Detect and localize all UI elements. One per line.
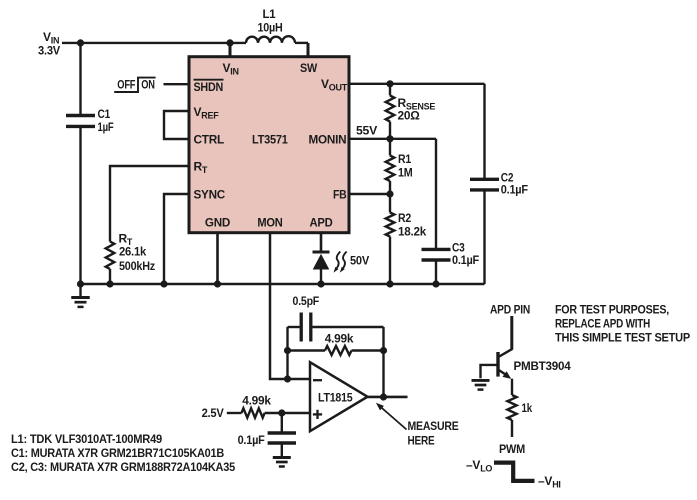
capacitor C1: [66, 107, 114, 134]
note parts list: [11, 432, 236, 474]
wire VOUT: [350, 83, 485, 85]
svg-text:2.5V: 2.5V: [202, 406, 224, 420]
pin label APD: [309, 216, 333, 230]
svg-text:R1: R1: [398, 152, 412, 166]
svg-text:26.1k: 26.1k: [119, 245, 147, 259]
wire C1 branch upper: [79, 43, 81, 116]
wire C1 branch lower: [79, 126, 81, 284]
resistor RSENSE: [386, 84, 436, 123]
junction rail-C3: [432, 280, 439, 287]
svg-text:–VHI: –VHI: [538, 474, 561, 490]
svg-text:50V: 50V: [350, 254, 369, 268]
svg-text:C1: C1: [98, 107, 111, 121]
wire base: [481, 365, 499, 378]
ground symbol main: [71, 284, 90, 307]
svg-text:R2: R2: [398, 211, 412, 225]
pin label SHDN: [194, 80, 224, 94]
junction fb-res-right: [380, 347, 387, 354]
pin label VIN: [223, 61, 239, 77]
label PWM: [499, 442, 525, 456]
annotation test note: [555, 303, 690, 345]
svg-text:0.1µF: 0.1µF: [238, 433, 265, 447]
junction rail-GND: [214, 280, 221, 287]
junction plus-cap: [278, 409, 285, 416]
net label VIN 3.3V: [38, 30, 60, 58]
svg-text:GND: GND: [205, 216, 231, 230]
svg-text:18.2k: 18.2k: [398, 224, 427, 238]
wire emitter: [511, 420, 513, 437]
wire VIN pin stub: [229, 43, 232, 57]
junction VIN-pin: [226, 39, 233, 46]
svg-text:0.1µF: 0.1µF: [501, 183, 528, 197]
wire VIN rail: [62, 42, 246, 44]
IC name LT3571: [252, 133, 288, 147]
svg-text:LT1815: LT1815: [318, 391, 353, 405]
label 50V: [350, 254, 369, 268]
diode APD: [313, 252, 330, 284]
wire FB: [350, 181, 390, 213]
junction rail-APD: [317, 280, 324, 287]
svg-text:10µH: 10µH: [258, 21, 283, 35]
label 55V: [356, 124, 377, 138]
op-amp U2 LT1815: [310, 362, 368, 431]
svg-text:MONIN: MONIN: [309, 133, 347, 147]
wire output: [368, 396, 408, 399]
svg-text:PMBT3904: PMBT3904: [514, 359, 572, 373]
junction rail-RT: [106, 280, 113, 287]
junction inv-node: [284, 375, 291, 382]
photodiode arrows: [334, 252, 347, 273]
wire RT pin: [110, 166, 189, 242]
pin label FB: [333, 188, 347, 202]
svg-text:CTRL: CTRL: [194, 133, 225, 147]
wire SW pin stub: [307, 43, 310, 57]
wire VREF-CTRL loop: [164, 111, 189, 139]
junction rail-C1: [77, 280, 84, 287]
resistor 4.99k feedback: [288, 332, 384, 356]
svg-text:0.1µF: 0.1µF: [452, 253, 479, 267]
svg-text:4.99k: 4.99k: [242, 394, 271, 408]
annotation MEASURE HERE: [376, 403, 459, 448]
resistor R1: [386, 139, 413, 181]
svg-text:APD PIN: APD PIN: [490, 303, 530, 317]
svg-text:SHDN: SHDN: [194, 80, 224, 94]
wire plus input left: [227, 412, 242, 414]
svg-text:SW: SW: [300, 61, 318, 75]
wire C2 branch: [483, 84, 485, 284]
svg-text:FB: FB: [333, 188, 347, 202]
pin label MONIN: [309, 133, 347, 147]
capacitor 0.1uF bypass: [238, 413, 296, 447]
svg-text:L1: TDK VLF3010AT-100MR49: L1: TDK VLF3010AT-100MR49: [11, 432, 163, 446]
pin label CTRL: [194, 133, 225, 147]
svg-text:C2, C3: MURATA X7R GRM188R72A1: C2, C3: MURATA X7R GRM188R72A104KA35: [11, 460, 236, 474]
svg-text:500kHz: 500kHz: [119, 259, 155, 273]
svg-text:0.5pF: 0.5pF: [293, 294, 320, 308]
ground symbol opamp: [273, 443, 291, 467]
junction rail-R2: [386, 280, 393, 287]
svg-text:–VLO: –VLO: [466, 458, 492, 474]
junction MONIN: [386, 135, 393, 142]
svg-text:1M: 1M: [398, 166, 413, 180]
pin label GND: [205, 216, 231, 230]
wire C3 branch: [435, 139, 437, 250]
wire SYNC: [164, 194, 189, 284]
capacitor C3: [422, 241, 480, 267]
wire inv feedback vertical: [286, 327, 288, 379]
svg-text:HERE: HERE: [408, 434, 435, 448]
wire SHDN: [164, 83, 190, 85]
wire output feedback vertical: [382, 327, 384, 397]
wire MONIN: [350, 138, 436, 140]
junction FB: [386, 190, 393, 197]
ground rail: [81, 283, 485, 286]
junction output: [380, 393, 387, 400]
resistor 4.99k input: [242, 394, 272, 418]
svg-text:1k: 1k: [522, 401, 533, 415]
resistor RT: [106, 232, 156, 274]
svg-text:MON: MON: [257, 216, 282, 230]
svg-text:1µF: 1µF: [98, 120, 114, 134]
pin label MON: [257, 216, 282, 230]
resistor R3 1k: [507, 379, 532, 420]
label 2.5V: [202, 406, 224, 420]
pin label RT: [194, 160, 208, 176]
wire MON to inverting input: [270, 233, 310, 379]
svg-text:20Ω: 20Ω: [398, 109, 421, 123]
pin label SYNC: [194, 188, 226, 202]
svg-text:C1: MURATA X7R GRM21BR71C105KA: C1: MURATA X7R GRM21BR71C105KA01B: [11, 446, 225, 460]
svg-text:SYNC: SYNC: [194, 188, 226, 202]
transistor Q1 PMBT3904: [498, 352, 571, 379]
capacitor C2: [470, 170, 528, 196]
svg-text:MEASURE: MEASURE: [408, 419, 459, 433]
svg-text:LT3571: LT3571: [252, 133, 288, 147]
svg-text:55V: 55V: [356, 124, 377, 138]
svg-text:APD: APD: [309, 216, 333, 230]
svg-text:4.99k: 4.99k: [325, 332, 354, 346]
IC U1 LT3571: [189, 57, 349, 233]
inductor L1: [246, 7, 308, 43]
pin label VREF: [194, 105, 220, 121]
switch waveform OFF/ON: [114, 78, 155, 92]
svg-text:3.3V: 3.3V: [38, 44, 60, 58]
svg-text:L1: L1: [263, 7, 277, 21]
junction fb-res-left: [284, 347, 291, 354]
svg-text:OFF: OFF: [117, 78, 135, 92]
pin label VOUT: [321, 77, 348, 93]
wire GND pin stub: [216, 233, 219, 284]
junction VIN-C1: [77, 39, 84, 46]
label APD PIN: [490, 303, 530, 317]
wire C3 lower: [435, 260, 437, 284]
wire R2 lower: [389, 237, 391, 285]
svg-text:THIS SIMPLE TEST SETUP: THIS SIMPLE TEST SETUP: [555, 331, 690, 345]
capacitor 0.5pF feedback: [288, 294, 384, 342]
junction VOUT-RSENSE: [386, 80, 393, 87]
svg-text:PWM: PWM: [499, 442, 525, 456]
svg-text:FOR TEST PURPOSES,: FOR TEST PURPOSES,: [555, 303, 669, 317]
ground symbol Q1: [472, 380, 490, 389]
wire RSENSE lower: [389, 122, 391, 139]
pin label SW: [300, 61, 318, 75]
waveform PWM step: [466, 458, 561, 490]
wire collector: [499, 316, 512, 357]
wire RT lower: [109, 269, 111, 284]
wire APD pin stub: [320, 233, 323, 252]
resistor R2: [386, 211, 427, 238]
junction rail-SYNC: [160, 280, 167, 287]
wire plus input right: [265, 412, 310, 414]
svg-text:ON: ON: [141, 78, 155, 92]
svg-text:REPLACE APD WITH: REPLACE APD WITH: [555, 317, 650, 331]
